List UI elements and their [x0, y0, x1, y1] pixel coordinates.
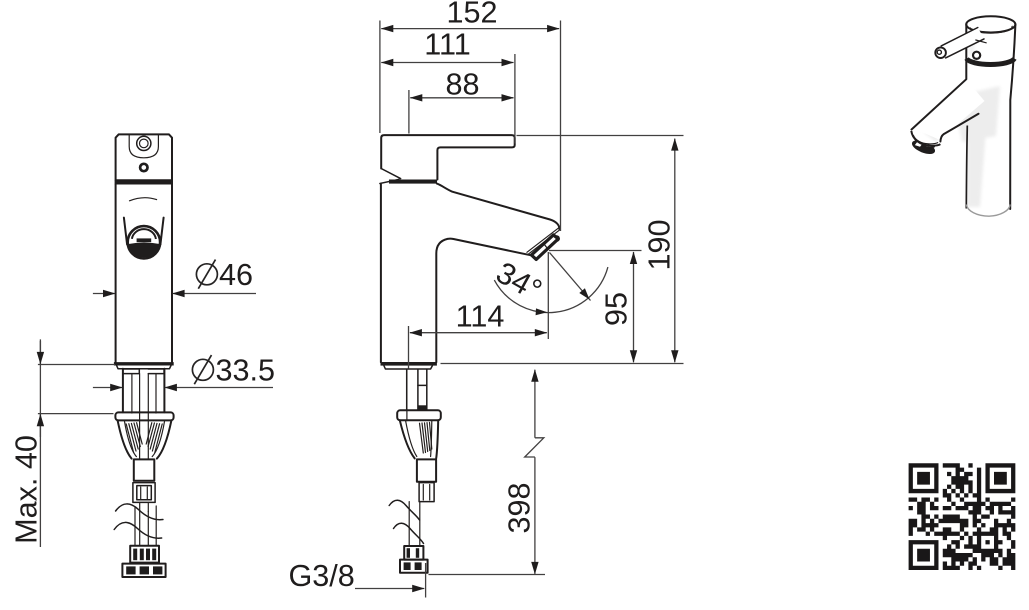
svg-text:33.5: 33.5 — [216, 354, 276, 388]
svg-text:88: 88 — [445, 68, 479, 102]
svg-text:190: 190 — [643, 219, 677, 270]
svg-text:G3/8: G3/8 — [289, 559, 355, 593]
svg-text:152: 152 — [446, 0, 497, 30]
svg-text:95: 95 — [600, 292, 634, 326]
svg-text:114: 114 — [456, 300, 505, 334]
svg-text:Max. 40: Max. 40 — [10, 435, 44, 544]
svg-text:46: 46 — [219, 258, 253, 292]
svg-text:398: 398 — [503, 482, 537, 533]
svg-text:111: 111 — [424, 28, 471, 62]
